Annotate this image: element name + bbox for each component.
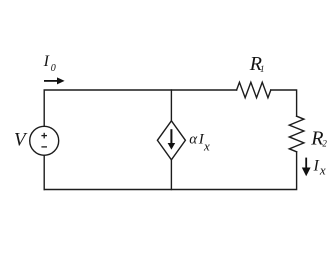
svg-text:I: I — [313, 157, 320, 174]
resistor R2 — [289, 116, 304, 152]
voltage source V circle — [30, 126, 59, 155]
voltage source minus sign — [41, 146, 47, 148]
dependent source arrow — [168, 129, 176, 149]
current Ix arrow — [302, 158, 311, 177]
svg-text:α: α — [189, 131, 198, 147]
dependent current source U1 diamond — [157, 121, 185, 160]
voltage source plus sign — [41, 133, 47, 139]
svg-text:0: 0 — [51, 63, 56, 74]
svg-text:I: I — [43, 53, 50, 70]
wire middle vertical above dependent source — [170, 90, 172, 121]
wire from R1 to top-right corner and down to R2 — [271, 90, 297, 116]
svg-text:2: 2 — [322, 138, 327, 148]
svg-text:x: x — [203, 139, 210, 154]
current I0 arrow — [44, 77, 65, 84]
wire left vertical below source V — [43, 155, 45, 189]
resistor R1 — [237, 82, 271, 97]
wire middle vertical below dependent source — [170, 160, 172, 190]
svg-text:V: V — [14, 130, 28, 151]
wire right vertical below R2 to bottom — [44, 152, 296, 190]
svg-text:1: 1 — [260, 64, 265, 74]
svg-text:x: x — [319, 163, 326, 178]
wire top from left corner to R1 — [44, 90, 236, 126]
